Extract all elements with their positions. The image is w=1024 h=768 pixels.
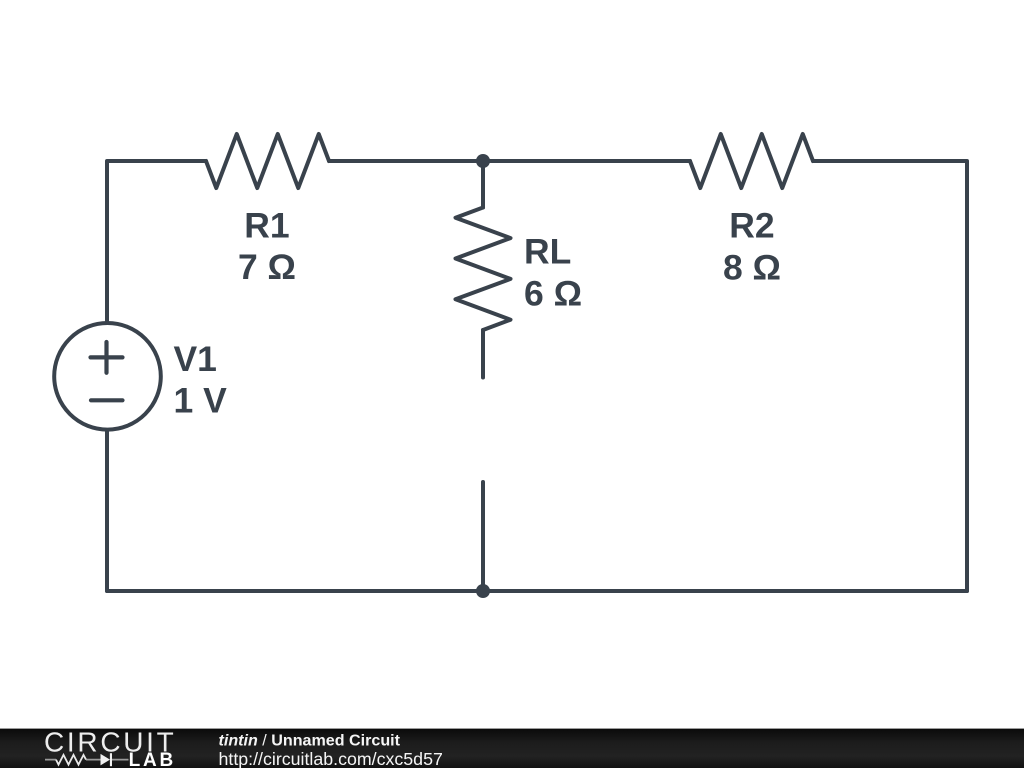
svg-text:R1: R1 [244,206,289,246]
wire: node A to R2.a [483,159,690,163]
svg-text:7 Ω: 7 Ω [238,247,296,287]
bottom wire [107,589,967,593]
wire: R2.b to top-right corner down right side [813,161,967,591]
CircuitLab logo diode [101,754,111,766]
wire: floating segment down to node B [481,482,485,591]
resistor R1 zigzag [206,134,329,188]
V1 plus symbol [91,342,123,373]
node B junction dot [476,584,490,598]
svg-text:http://circuitlab.com/cxc5d57: http://circuitlab.com/cxc5d57 [219,749,443,768]
resistor RL zigzag [456,208,511,331]
footer black bar [0,729,1024,768]
CircuitLab logo resistor [56,755,86,765]
wire: bottom-left corner up to V1.- [105,430,109,591]
wire: RL.b bottom lead (open end) [481,330,485,378]
wire: node A down to RL.a [481,161,485,208]
svg-text:8 Ω: 8 Ω [723,248,781,288]
CircuitLab logo diode cathode bar [110,753,112,766]
wire: V1.+ up and along top to R1.a [107,161,206,323]
svg-text:RL: RL [524,231,571,271]
V1 minus symbol [91,398,123,402]
wire: R1.b to node A [329,159,483,163]
svg-text:V1: V1 [174,339,217,379]
voltage source V1 circle [54,323,161,430]
svg-text:1 V: 1 V [174,380,228,420]
CircuitLab logo wire [45,759,129,761]
resistor R2 zigzag [690,134,813,188]
svg-text:LAB: LAB [129,750,176,768]
svg-text:R2: R2 [729,206,774,246]
svg-text:tintin / Unnamed Circuit: tintin / Unnamed Circuit [219,732,401,750]
svg-text:6 Ω: 6 Ω [524,273,582,313]
node A junction dot [476,154,490,168]
